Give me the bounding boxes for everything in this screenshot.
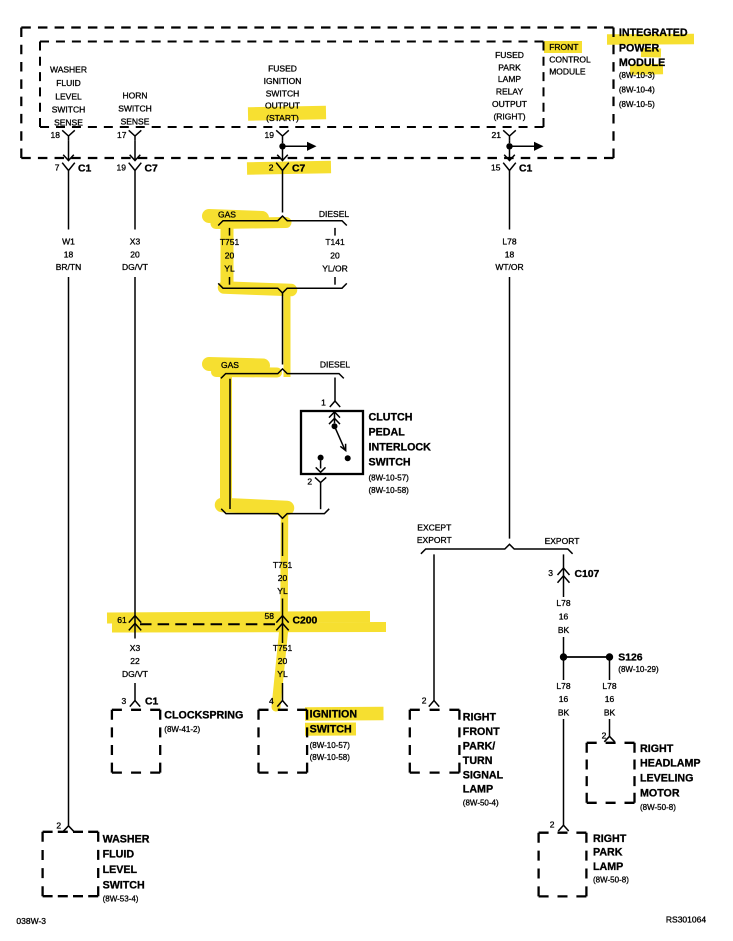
svg-text:DIESEL: DIESEL [319,209,350,219]
svg-text:2: 2 [307,477,312,487]
svg-text:18: 18 [505,249,515,259]
svg-text:YL: YL [277,586,288,596]
svg-text:SENSE: SENSE [54,118,83,128]
svg-text:YL/OR: YL/OR [322,264,348,274]
svg-text:20: 20 [278,573,288,583]
svg-text:(8W-41-2): (8W-41-2) [164,725,200,734]
svg-text:HORN: HORN [122,91,147,101]
svg-text:(8W-53-4): (8W-53-4) [103,895,139,904]
svg-text:22: 22 [130,656,140,666]
svg-text:21: 21 [492,130,502,140]
svg-text:MODULE: MODULE [549,66,586,76]
svg-text:S126: S126 [618,652,642,663]
svg-text:19: 19 [265,130,275,140]
svg-text:BK: BK [558,625,570,635]
svg-text:X3: X3 [130,236,141,246]
svg-text:EXPORT: EXPORT [417,535,452,545]
svg-text:L78: L78 [502,236,516,246]
svg-text:C1: C1 [78,163,92,174]
svg-text:RIGHT: RIGHT [593,833,627,845]
svg-text:(8W-10-58): (8W-10-58) [369,486,410,495]
svg-text:PARK/: PARK/ [463,740,495,752]
svg-text:(8W-50-4): (8W-50-4) [463,799,499,808]
svg-text:SWITCH: SWITCH [118,104,152,114]
svg-text:GAS: GAS [218,209,236,219]
svg-text:BK: BK [558,708,570,718]
svg-text:16: 16 [605,694,615,704]
svg-text:4: 4 [269,696,274,706]
svg-text:INTEGRATED: INTEGRATED [619,27,688,39]
svg-text:(8W-50-8): (8W-50-8) [640,803,676,812]
svg-text:SWITCH: SWITCH [52,105,86,115]
svg-text:IGNITION: IGNITION [310,709,358,721]
svg-text:L78: L78 [602,681,616,691]
svg-text:BK: BK [604,708,616,718]
svg-text:SWITCH: SWITCH [369,456,411,468]
svg-text:RELAY: RELAY [496,87,524,97]
svg-text:C7: C7 [292,163,306,174]
svg-text:T751: T751 [220,237,240,247]
svg-text:RS301064: RS301064 [666,914,706,924]
svg-text:TURN: TURN [463,755,493,767]
svg-text:038W-3: 038W-3 [16,916,46,926]
svg-text:IGNITION: IGNITION [264,76,302,86]
svg-text:58: 58 [265,611,275,621]
svg-text:C7: C7 [145,163,159,174]
svg-text:MOTOR: MOTOR [640,788,680,800]
svg-text:SWITCH: SWITCH [103,879,145,891]
svg-text:CLUTCH: CLUTCH [369,411,413,423]
svg-text:(8W-10-58): (8W-10-58) [310,753,351,762]
svg-text:(8W-10-5): (8W-10-5) [619,100,655,109]
svg-text:3: 3 [548,568,553,578]
svg-text:LAMP: LAMP [498,74,521,84]
svg-text:1: 1 [321,398,326,408]
svg-text:WASHER: WASHER [103,833,150,845]
svg-text:INTERLOCK: INTERLOCK [369,441,432,453]
svg-text:(8W-10-4): (8W-10-4) [619,85,655,94]
svg-text:C1: C1 [145,697,159,708]
svg-text:2: 2 [422,695,427,705]
svg-text:16: 16 [559,611,569,621]
svg-text:18: 18 [51,130,61,140]
svg-text:W1: W1 [62,236,75,246]
svg-text:(8W-50-8): (8W-50-8) [593,875,629,884]
svg-text:2: 2 [269,163,274,173]
svg-text:20: 20 [330,251,340,261]
svg-text:(RIGHT): (RIGHT) [493,112,525,122]
svg-text:17: 17 [117,130,127,140]
svg-text:RIGHT: RIGHT [640,743,674,755]
svg-text:PARK: PARK [593,847,623,859]
svg-text:C1: C1 [519,163,533,174]
svg-text:SWITCH: SWITCH [266,88,300,98]
svg-text:LAMP: LAMP [593,861,623,873]
svg-text:SWITCH: SWITCH [310,724,352,736]
svg-text:(START): (START) [266,113,299,123]
svg-text:FLUID: FLUID [56,78,81,88]
svg-text:C200: C200 [293,615,318,626]
svg-text:3: 3 [121,696,126,706]
svg-text:FLUID: FLUID [103,849,135,861]
svg-text:(8W-10-29): (8W-10-29) [618,665,659,674]
svg-text:L78: L78 [556,598,570,608]
svg-text:EXPORT: EXPORT [545,536,580,546]
svg-text:FUSED: FUSED [495,50,524,60]
svg-text:DG/VT: DG/VT [122,262,148,272]
svg-text:61: 61 [117,615,127,625]
svg-text:FUSED: FUSED [268,64,297,74]
svg-text:OUTPUT: OUTPUT [492,99,527,109]
svg-text:SENSE: SENSE [121,117,150,127]
svg-text:GAS: GAS [221,360,239,370]
svg-text:LEVEL: LEVEL [103,864,138,876]
svg-text:WASHER: WASHER [50,65,87,75]
svg-text:RIGHT: RIGHT [463,712,497,724]
svg-text:20: 20 [278,656,288,666]
svg-text:DIESEL: DIESEL [320,360,351,370]
svg-text:YL: YL [277,669,288,679]
svg-text:LEVELING: LEVELING [640,773,693,785]
svg-text:FRONT: FRONT [463,726,500,738]
svg-text:FRONT: FRONT [549,42,578,52]
svg-text:C107: C107 [575,569,600,580]
svg-text:(8W-10-57): (8W-10-57) [369,474,410,483]
svg-text:T751: T751 [273,643,293,653]
svg-text:YL: YL [224,264,235,274]
svg-text:18: 18 [64,249,74,259]
svg-text:BR/TN: BR/TN [56,262,82,272]
svg-text:T751: T751 [273,560,293,570]
svg-text:POWER: POWER [619,42,660,54]
svg-text:CLOCKSPRING: CLOCKSPRING [164,709,243,721]
svg-text:19: 19 [117,163,127,173]
svg-text:PARK: PARK [498,63,521,73]
svg-text:SIGNAL: SIGNAL [463,769,504,781]
svg-text:X3: X3 [130,643,141,653]
svg-text:2: 2 [550,820,555,830]
svg-text:CONTROL: CONTROL [549,55,591,65]
svg-text:20: 20 [225,251,235,261]
svg-text:2: 2 [602,731,607,741]
svg-text:OUTPUT: OUTPUT [265,101,300,111]
svg-text:L78: L78 [556,681,570,691]
svg-text:(8W-10-57): (8W-10-57) [310,741,351,750]
svg-text:PEDAL: PEDAL [369,426,406,438]
svg-text:16: 16 [559,694,569,704]
svg-text:20: 20 [130,249,140,259]
svg-text:EXCEPT: EXCEPT [417,523,451,533]
svg-text:WT/OR: WT/OR [495,262,523,272]
svg-text:LAMP: LAMP [463,784,493,796]
svg-text:(8W-10-3): (8W-10-3) [619,71,655,80]
svg-text:HEADLAMP: HEADLAMP [640,758,701,770]
svg-text:LEVEL: LEVEL [55,91,82,101]
svg-text:15: 15 [491,163,501,173]
svg-text:7: 7 [55,163,60,173]
svg-text:MODULE: MODULE [619,57,665,69]
svg-text:DG/VT: DG/VT [122,669,148,679]
svg-text:2: 2 [56,821,61,831]
svg-text:T141: T141 [325,237,345,247]
